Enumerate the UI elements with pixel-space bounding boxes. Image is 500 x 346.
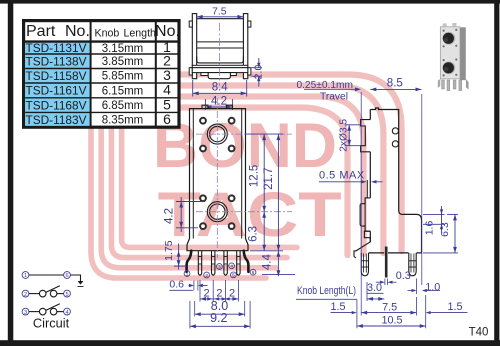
svg-text:2.0: 2.0: [253, 65, 265, 80]
circuit switch rows: [22, 290, 29, 297]
svg-text:2xØ3.5: 2xØ3.5: [339, 119, 350, 152]
svg-text:6.15mm: 6.15mm: [102, 85, 144, 97]
watermark arc bands top-right: [150, 75, 402, 252]
svg-text:3.0: 3.0: [367, 282, 382, 294]
svg-text:0.6: 0.6: [169, 278, 184, 290]
dim 4.2 top: [204, 99, 206, 110]
svg-text:6.3: 6.3: [248, 226, 260, 242]
svg-text:T40: T40: [469, 327, 489, 339]
svg-text:1: 1: [24, 273, 27, 279]
svg-text:2: 2: [229, 287, 235, 299]
svg-text:TSD-1168V: TSD-1168V: [26, 98, 88, 112]
svg-text:3.15mm: 3.15mm: [102, 43, 144, 55]
svg-text:4: 4: [230, 264, 233, 269]
svg-text:5: 5: [163, 96, 171, 112]
svg-text:1.5: 1.5: [330, 301, 345, 313]
dim 12.5: [246, 133, 284, 135]
dim 1.6: [423, 213, 445, 215]
page border frame: [0, 0, 500, 4]
svg-text:4.2: 4.2: [164, 208, 176, 224]
dim 8.0: [194, 301, 196, 317]
dim 7.5: [197, 16, 244, 18]
svg-text:5: 5: [232, 273, 235, 278]
dim 8.4: [192, 80, 194, 97]
svg-text:9.2: 9.2: [210, 311, 227, 325]
svg-text:1.0: 1.0: [425, 282, 440, 294]
table of part numbers: [24, 21, 179, 128]
svg-text:5: 5: [65, 292, 68, 298]
svg-text:TSD-1138V: TSD-1138V: [26, 54, 88, 68]
svg-text:12.5: 12.5: [248, 165, 260, 187]
svg-text:2: 2: [203, 287, 209, 299]
svg-text:7.5: 7.5: [212, 5, 227, 17]
svg-text:8.4: 8.4: [212, 82, 229, 94]
svg-text:4.4: 4.4: [262, 254, 274, 271]
svg-text:4: 4: [163, 82, 171, 98]
switch side view body: [369, 108, 422, 253]
svg-text:Knob Length(L): Knob Length(L): [297, 285, 356, 297]
dim 2 2 2: [199, 280, 201, 302]
svg-text:5.85mm: 5.85mm: [102, 71, 144, 83]
svg-text:21.7: 21.7: [263, 168, 275, 190]
photo of switch: [460, 27, 466, 80]
svg-text:6: 6: [163, 111, 171, 127]
circuit row pins 1-6 with ground: [22, 272, 29, 279]
svg-text:3: 3: [24, 310, 27, 316]
svg-text:Part: Part: [26, 23, 56, 40]
svg-text:3: 3: [218, 264, 221, 269]
svg-text:8.35mm: 8.35mm: [102, 115, 144, 127]
svg-text:1.5: 1.5: [447, 301, 462, 313]
front view legs: [198, 251, 201, 276]
svg-text:TSD-1183V: TSD-1183V: [26, 113, 88, 127]
svg-text:10.5: 10.5: [381, 314, 402, 326]
svg-text:2: 2: [24, 292, 27, 298]
svg-text:TSD-1131V: TSD-1131V: [26, 41, 88, 55]
svg-text:0.3: 0.3: [396, 270, 411, 282]
svg-text:Circuit: Circuit: [33, 316, 70, 331]
svg-text:6.85mm: 6.85mm: [102, 100, 144, 112]
svg-text:7.5: 7.5: [382, 301, 397, 313]
svg-text:Knob: Knob: [95, 28, 120, 40]
dim 2.0: [252, 67, 262, 69]
svg-text:TSD-1161V: TSD-1161V: [26, 84, 88, 98]
svg-text:8.5: 8.5: [387, 77, 403, 89]
svg-text:2: 2: [205, 273, 208, 278]
svg-text:TSD-1158V: TSD-1158V: [26, 69, 88, 83]
dim 2x3.5: [345, 124, 361, 126]
dim 9.2: [189, 301, 191, 329]
svg-text:3.85mm: 3.85mm: [102, 56, 144, 68]
watermark corner bands bottom-left: [91, 120, 266, 278]
svg-text:No.: No.: [65, 23, 90, 40]
switch top view: [192, 14, 196, 79]
svg-text:2: 2: [163, 52, 171, 68]
dim 21.7: [277, 134, 279, 251]
svg-text:6: 6: [252, 270, 255, 275]
svg-text:1.6: 1.6: [423, 221, 435, 236]
svg-text:1: 1: [186, 271, 189, 276]
svg-text:1.75: 1.75: [163, 240, 175, 261]
switch front view body: [187, 109, 248, 251]
svg-text:No.: No.: [155, 23, 180, 40]
svg-text:3: 3: [163, 67, 171, 83]
svg-text:6.3: 6.3: [439, 222, 451, 237]
dim 6.3 side: [423, 252, 458, 254]
svg-text:2: 2: [216, 287, 222, 299]
svg-text:Length: Length: [124, 28, 157, 40]
svg-text:4.2: 4.2: [211, 95, 227, 107]
svg-text:6: 6: [65, 273, 68, 279]
svg-text:0.5 MAX: 0.5 MAX: [319, 169, 365, 181]
dim 6.3 front: [263, 212, 265, 251]
pin number labels: [184, 271, 190, 277]
dim 4.4: [277, 251, 279, 276]
svg-text:Travel: Travel: [320, 91, 348, 102]
